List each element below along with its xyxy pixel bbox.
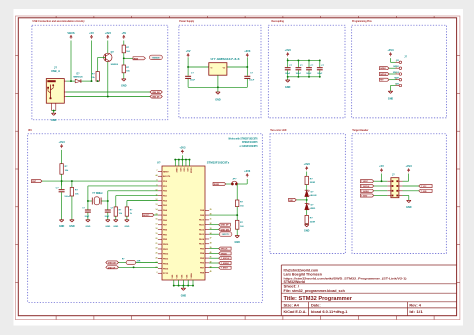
svg-text:17: 17 — [156, 223, 158, 225]
svg-text:MCU: MCU — [28, 128, 32, 132]
svg-text:VDD: VDD — [179, 168, 181, 173]
svg-text:GND: GND — [113, 226, 118, 228]
svg-text:2: 2 — [396, 67, 397, 69]
svg-text:+3V3: +3V3 — [406, 164, 413, 168]
svg-text:PB11: PB11 — [163, 249, 169, 251]
svg-text:+3V3: +3V3 — [244, 49, 251, 53]
svg-text:25: 25 — [156, 252, 158, 254]
svg-text:SWCLK: SWCLK — [221, 249, 228, 251]
svg-text:15: 15 — [156, 214, 158, 216]
svg-text:Target Header: Target Header — [352, 128, 369, 132]
svg-text:PB14: PB14 — [163, 262, 169, 265]
svg-text:BLUE: BLUE — [311, 195, 317, 197]
svg-text:+3V3: +3V3 — [59, 140, 66, 144]
svg-text:+5V: +5V — [186, 49, 191, 53]
svg-text:T_NRST: T_NRST — [221, 268, 229, 270]
svg-text:6: 6 — [156, 185, 157, 187]
svg-text:13: 13 — [156, 204, 158, 206]
svg-text:USB_DP: USB_DP — [108, 267, 116, 269]
svg-text:File: stm32_programmer.kicad_s: File: stm32_programmer.kicad_sch — [284, 289, 345, 293]
svg-text:PA12: PA12 — [199, 228, 205, 231]
svg-text:T_SWCLK: T_SWCLK — [221, 258, 230, 260]
svg-text:STM32F101C8T6: STM32F101C8T6 — [242, 140, 258, 144]
svg-text:GND: GND — [85, 226, 90, 228]
svg-text:Power Supply: Power Supply — [179, 19, 194, 23]
svg-text:GND: GND — [285, 86, 291, 89]
svg-text:PA10: PA10 — [199, 219, 205, 222]
svg-text:+3V3: +3V3 — [244, 169, 251, 173]
svg-text:U? AMS1117-3.3: U? AMS1117-3.3 — [211, 57, 241, 61]
svg-text:100nF: 100nF — [296, 73, 302, 75]
svg-text:31: 31 — [210, 218, 212, 220]
svg-text:VBAT: VBAT — [175, 168, 178, 174]
svg-text:Works with STM32F103C8T6: Works with STM32F103C8T6 — [228, 136, 257, 140]
svg-text:26: 26 — [156, 257, 158, 259]
svg-text:GND: GND — [215, 98, 221, 101]
svg-text:STM32World: STM32World — [284, 280, 306, 284]
svg-text:1: 1 — [396, 61, 397, 63]
svg-text:SWDIO: SWDIO — [221, 253, 228, 255]
svg-text:GND: GND — [105, 226, 110, 228]
svg-text:PA15: PA15 — [199, 243, 205, 246]
svg-text:BOOT0: BOOT0 — [163, 176, 171, 178]
svg-text:+3V3: +3V3 — [105, 31, 112, 35]
svg-text:3: 3 — [396, 73, 397, 75]
svg-text:38: 38 — [210, 242, 212, 244]
svg-text:GND: GND — [181, 294, 187, 297]
svg-text:GND: GND — [124, 226, 129, 228]
svg-text:PC13: PC13 — [163, 273, 169, 275]
svg-text:100nF: 100nF — [306, 73, 312, 75]
svg-text:+3V3: +3V3 — [179, 145, 186, 149]
svg-text:Rev: 4: Rev: 4 — [409, 303, 421, 307]
svg-text:SWCLK: SWCLK — [380, 74, 387, 76]
svg-text:PA11: PA11 — [199, 223, 205, 226]
svg-text:14: 14 — [156, 208, 158, 211]
svg-text:21: 21 — [156, 243, 158, 245]
svg-text:GND: GND — [59, 225, 65, 228]
svg-text:T_SWCLK: T_SWCLK — [361, 186, 370, 188]
svg-text:T_NRST: T_NRST — [361, 181, 369, 183]
svg-text:USB Connection and accommodati: USB Connection and accommodation circuit… — [33, 19, 85, 23]
svg-text:GND: GND — [51, 119, 57, 122]
svg-text:MBR0520: MBR0520 — [73, 77, 83, 79]
svg-text:BOOT1: BOOT1 — [143, 215, 149, 217]
svg-text:10uF: 10uF — [249, 79, 255, 81]
svg-text:VDDA: VDDA — [189, 168, 192, 174]
svg-text:+3V3: +3V3 — [285, 48, 292, 52]
svg-text:USB_DM: USB_DM — [152, 92, 160, 94]
svg-text:T_SWO: T_SWO — [361, 195, 368, 197]
svg-text:SS8550: SS8550 — [111, 64, 119, 66]
svg-text:JP?: JP? — [232, 179, 237, 181]
svg-text:VDD: VDD — [186, 168, 188, 173]
svg-text:Decoupling: Decoupling — [272, 19, 285, 23]
svg-text:100nF: 100nF — [317, 73, 323, 75]
svg-text:RENUM: RENUM — [152, 57, 159, 59]
svg-text:KiCad E.D.A.: KiCad E.D.A. — [284, 310, 307, 314]
svg-text:PA14: PA14 — [199, 238, 205, 241]
svg-text:USB_DP: USB_DP — [152, 96, 160, 98]
svg-text:20pF: 20pF — [105, 216, 110, 218]
svg-text:Size: A4: Size: A4 — [284, 303, 300, 307]
svg-text:PB12: PB12 — [163, 254, 169, 256]
svg-text:10uF: 10uF — [190, 79, 196, 81]
svg-text:4: 4 — [396, 77, 397, 80]
svg-text:PB13: PB13 — [163, 259, 169, 261]
svg-text:ELED: ELED — [214, 184, 220, 186]
svg-text:USB_A: USB_A — [51, 69, 60, 73]
svg-text:100nF: 100nF — [285, 73, 291, 75]
svg-text:+5V: +5V — [379, 164, 384, 168]
svg-text:+3V3: +3V3 — [304, 162, 311, 166]
svg-text:+5V: +5V — [89, 31, 94, 35]
svg-text:PB15: PB15 — [163, 268, 169, 270]
svg-text:STM32F103C8Tx: STM32F103C8Tx — [207, 160, 230, 164]
svg-text:+3V3: +3V3 — [387, 48, 394, 52]
svg-text:RED: RED — [311, 208, 316, 210]
svg-text:Y? 8MHz: Y? 8MHz — [92, 192, 103, 195]
svg-text:19: 19 — [156, 233, 158, 235]
svg-text:REN: REN — [134, 58, 139, 60]
svg-text:45: 45 — [210, 270, 212, 273]
svg-text:BOOT1: BOOT1 — [222, 234, 228, 236]
svg-text:37: 37 — [210, 238, 212, 240]
svg-text:VSSA: VSSA — [190, 273, 193, 279]
svg-text:T_SWDIO: T_SWDIO — [221, 263, 230, 265]
svg-text:USB_DM: USB_DM — [108, 262, 116, 264]
svg-text:22: 22 — [156, 248, 158, 250]
svg-text:44: 44 — [156, 174, 158, 177]
svg-text:220R: 220R — [310, 221, 316, 223]
svg-text:Id: 1/1: Id: 1/1 — [409, 310, 423, 314]
svg-text:GND: GND — [121, 85, 127, 88]
svg-text:T_GND: T_GND — [421, 191, 428, 193]
svg-text:20pF: 20pF — [85, 216, 90, 218]
svg-text:5: 5 — [396, 84, 397, 86]
svg-text:220R: 220R — [310, 182, 316, 184]
svg-text:GND: GND — [406, 206, 412, 209]
svg-text:U?: U? — [157, 160, 161, 164]
svg-text:USB_DM: USB_DM — [221, 229, 229, 231]
svg-text:Date:: Date: — [311, 303, 321, 307]
svg-text:VDD: VDD — [182, 168, 184, 173]
svg-text:11: 11 — [156, 194, 158, 196]
svg-text:T_VCC: T_VCC — [421, 186, 427, 188]
svg-text:GND: GND — [235, 241, 241, 244]
svg-text:PB10: PB10 — [163, 244, 169, 246]
svg-text:PA13: PA13 — [199, 233, 205, 236]
svg-text:20: 20 — [156, 238, 158, 240]
svg-text:J?: J? — [54, 65, 57, 69]
svg-text:GND: GND — [388, 97, 394, 100]
svg-text:GND: GND — [69, 225, 75, 228]
svg-text:2: 2 — [156, 272, 157, 274]
svg-text:or GD32F103C8T6: or GD32F103C8T6 — [240, 144, 258, 148]
svg-text:16: 16 — [156, 219, 158, 221]
svg-text:kicad 6.0.11+dfsg-1: kicad 6.0.11+dfsg-1 — [311, 310, 348, 314]
svg-text:18: 18 — [156, 228, 158, 230]
svg-text:Title: STM32 Programmer: Title: STM32 Programmer — [284, 296, 353, 302]
svg-text:Programming Pins: Programming Pins — [352, 19, 372, 23]
svg-text:USB_DP: USB_DP — [221, 225, 229, 227]
svg-text:Two-color LED: Two-color LED — [270, 128, 286, 132]
svg-text:29: 29 — [210, 209, 212, 211]
svg-text:7: 7 — [156, 170, 157, 172]
svg-text:GND: GND — [304, 230, 310, 233]
svg-text:+5V: +5V — [121, 31, 126, 35]
svg-text:T_SWDIO: T_SWDIO — [361, 191, 369, 193]
svg-text:NRST: NRST — [163, 171, 169, 173]
svg-text:VBUS: VBUS — [67, 31, 74, 35]
svg-text:SWDIO: SWDIO — [380, 68, 386, 70]
